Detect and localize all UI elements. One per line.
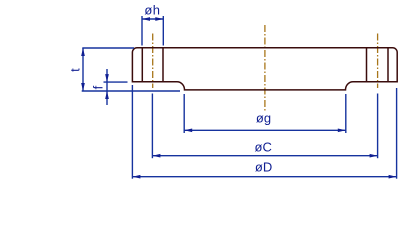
dimension øg arrow left: [184, 128, 192, 132]
dimension øh arrow right: [155, 17, 163, 21]
svg-text:t: t: [68, 68, 83, 72]
centerline flange axis: [264, 25, 266, 112]
svg-text:øC: øC: [255, 139, 272, 154]
dimension t arrow bottom: [81, 83, 85, 91]
centerline right bolt hole: [377, 34, 379, 89]
dimension f extension line top: [104, 81, 128, 83]
dimension t arrow top: [81, 48, 85, 56]
dimension øh line: [142, 18, 163, 20]
dimension øC line: [152, 155, 377, 157]
dimension øg extension line right: [345, 94, 347, 133]
dimension øD arrow right: [389, 175, 397, 179]
dimension øg extension line left: [183, 94, 185, 133]
dimension øC arrow right: [370, 154, 378, 158]
dimension t line: [82, 48, 84, 91]
svg-text:f: f: [91, 85, 106, 89]
svg-text:øD: øD: [255, 159, 272, 174]
dimension øC arrow left: [152, 154, 160, 158]
dimension øD arrow left: [132, 175, 140, 179]
dimension øg line: [184, 129, 346, 131]
dimension f arrow bottom: [105, 91, 109, 99]
dimension øC extension line right: [377, 94, 379, 159]
dimension t extension line top: [82, 47, 134, 49]
dimension f line: [106, 69, 108, 105]
dimension øh arrow left: [142, 17, 150, 21]
svg-text:øg: øg: [256, 111, 271, 126]
dimension øD extension line left: [131, 85, 133, 179]
bolt hole left, left edge: [141, 48, 143, 82]
bolt hole right, left edge: [366, 48, 368, 82]
dimension f arrow top: [105, 74, 109, 82]
flange outline: [132, 48, 397, 90]
shared extension line at raised face bottom: [82, 90, 180, 92]
dimension øh extension line left: [141, 16, 143, 46]
svg-text:øh: øh: [144, 3, 160, 18]
bolt hole left, right edge: [162, 48, 164, 82]
dimension øg arrow right: [338, 128, 346, 132]
centerline left bolt hole: [152, 34, 154, 89]
bolt hole right, right edge: [387, 48, 389, 82]
dimension øD extension line right: [396, 88, 398, 179]
dimension øh extension line right: [162, 16, 164, 46]
dimension øD line: [132, 176, 396, 178]
dimension øC extension line left: [151, 94, 153, 159]
